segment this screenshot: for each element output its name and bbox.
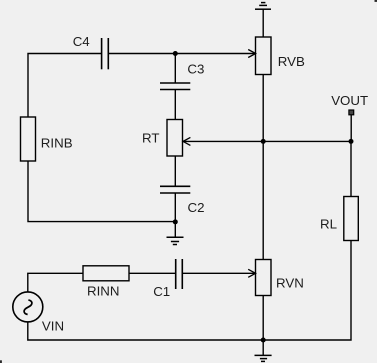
wire from RINB top to C4 left plate [28,54,102,118]
wiper arrow into RT right side with wire to node C [183,137,263,145]
wire from VIN top to RINN left [28,273,83,292]
node B junction dot [173,219,178,224]
svg-text:RVN: RVN [276,276,304,291]
wire with wiper arrow from C1 right plate into RVN left side [182,269,255,277]
wire from RINN right to C1 left plate [129,272,176,274]
wire from VIN bottom to node E along bottom bus [28,322,263,340]
wire from RL bottom to node E along bottom bus [263,241,351,341]
wire from C4 right plate to node A [108,53,175,55]
wire from RT bottom to C2 top plate [174,156,176,186]
svg-text:C3: C3 [187,62,204,77]
VOUT terminal square [349,110,354,115]
capacitor C4 [102,38,109,69]
node D junction dot [349,139,354,144]
wire with wiper arrow from node A into RVB left side [175,50,256,58]
resistor RINB [21,117,36,161]
source VIN [13,292,43,322]
wire from RVB bottom to node C [262,75,264,142]
wire from node C to RVN top [262,141,264,259]
svg-text:RL: RL [320,217,337,232]
node A junction dot [173,51,178,56]
svg-text:C2: C2 [188,200,205,215]
capacitor C2 [160,186,190,193]
node C junction dot [261,139,266,144]
potentiometer RVN [256,260,272,296]
svg-text:VOUT: VOUT [331,93,368,108]
wire from node D to RL top [350,141,352,196]
svg-text:C1: C1 [153,284,170,299]
ground below node E [255,340,272,361]
wire from VOUT terminal to node D [350,115,352,142]
svg-text:RINN: RINN [87,283,120,298]
ground below node B [167,222,184,245]
wire from top ground to RVB top [262,9,264,37]
potentiometer RT [167,120,183,157]
svg-text:VIN: VIN [42,319,64,334]
capacitor C1 [176,259,183,289]
node E junction dot [261,338,266,343]
wire from RINB bottom to node B [28,161,175,222]
inverted ground at top of RVB [255,3,271,10]
resistor RINN [83,266,129,281]
svg-text:RT: RT [142,131,160,146]
svg-text:C4: C4 [73,34,90,49]
capacitor C3 [160,83,190,90]
wire from C3 bottom plate to RT top [174,90,176,120]
potentiometer RVB [256,37,272,75]
wire from RVN bottom to node E [262,296,264,341]
svg-text:RINB: RINB [41,136,73,151]
wire from C2 bottom plate to node B [174,193,176,222]
wire from node A down to C3 top plate [174,54,176,84]
screen artifact top-right corner [375,0,377,2]
resistor RL [344,197,359,241]
screen artifact bottom-left corner [0,360,2,363]
svg-text:RVB: RVB [278,54,305,69]
wire from node C to node D [263,140,351,142]
